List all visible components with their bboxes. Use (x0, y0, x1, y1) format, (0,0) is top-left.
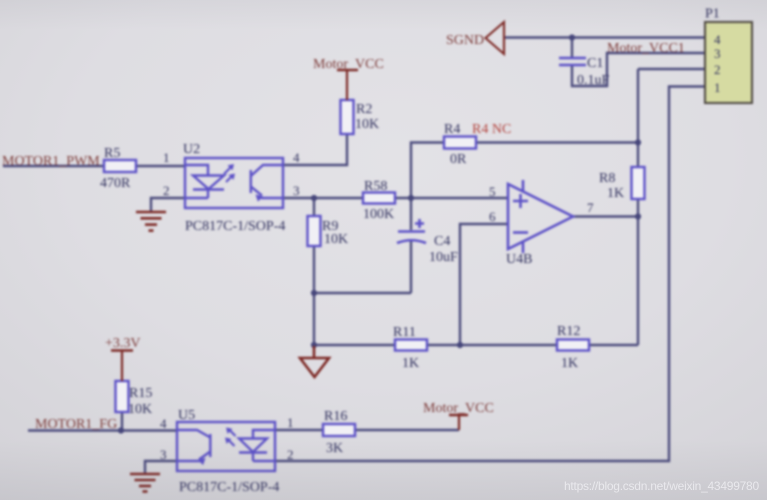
svg-text:0R: 0R (450, 152, 467, 167)
svg-text:3: 3 (714, 46, 721, 61)
svg-text:PC817C-1/SOP-4: PC817C-1/SOP-4 (179, 480, 279, 495)
svg-text:SGND: SGND (446, 33, 484, 48)
svg-text:+3.3V: +3.3V (105, 336, 141, 351)
svg-text:7: 7 (587, 200, 594, 215)
svg-text:P1: P1 (705, 7, 720, 22)
svg-text:C4: C4 (434, 234, 450, 249)
svg-text:PC817C-1/SOP-4: PC817C-1/SOP-4 (185, 219, 285, 234)
svg-text:6: 6 (489, 209, 496, 224)
svg-text:1: 1 (163, 150, 170, 165)
svg-text:Motor_VCC1: Motor_VCC1 (607, 41, 685, 56)
svg-text:4: 4 (293, 150, 300, 165)
svg-text:Motor_VCC: Motor_VCC (423, 401, 494, 416)
svg-text:3: 3 (293, 183, 300, 198)
svg-text:C1: C1 (587, 56, 603, 71)
svg-text:470R: 470R (100, 176, 131, 191)
svg-text:R58: R58 (364, 179, 387, 194)
svg-text:3K: 3K (326, 441, 343, 456)
svg-text:MOTOR1_FG: MOTOR1_FG (35, 417, 117, 432)
svg-text:4: 4 (714, 32, 721, 47)
svg-text:R2: R2 (356, 102, 372, 117)
svg-text:2: 2 (163, 183, 170, 198)
svg-text:U2: U2 (183, 142, 200, 157)
svg-text:R11: R11 (393, 325, 416, 340)
svg-text:U4B: U4B (506, 252, 532, 267)
svg-text:R8: R8 (599, 171, 615, 186)
svg-text:1K: 1K (402, 356, 419, 371)
svg-text:U5: U5 (178, 408, 195, 423)
svg-text:R16: R16 (324, 409, 347, 424)
svg-text:10K: 10K (128, 402, 152, 417)
svg-text:100K: 100K (363, 207, 394, 222)
svg-text:2: 2 (287, 447, 294, 462)
svg-text:R4 NC: R4 NC (472, 122, 511, 137)
svg-text:1: 1 (287, 415, 294, 430)
svg-text:1K: 1K (607, 186, 624, 201)
svg-text:4: 4 (160, 416, 167, 431)
svg-text:3: 3 (160, 447, 167, 462)
svg-text:R12: R12 (557, 324, 580, 339)
svg-text:MOTOR1_PWM: MOTOR1_PWM (2, 154, 100, 169)
svg-text:R5: R5 (104, 146, 120, 161)
svg-text:R4: R4 (444, 122, 460, 137)
svg-text:R15: R15 (129, 386, 152, 401)
svg-text:10K: 10K (324, 232, 348, 247)
svg-text:2: 2 (714, 62, 721, 77)
svg-text:10uF: 10uF (429, 250, 458, 265)
svg-text:1K: 1K (561, 356, 578, 371)
svg-text:10K: 10K (355, 117, 379, 132)
svg-text:1: 1 (714, 80, 721, 95)
svg-text:0.1uF: 0.1uF (577, 73, 610, 88)
svg-text:5: 5 (489, 184, 496, 199)
svg-text:Motor_VCC: Motor_VCC (313, 57, 384, 72)
